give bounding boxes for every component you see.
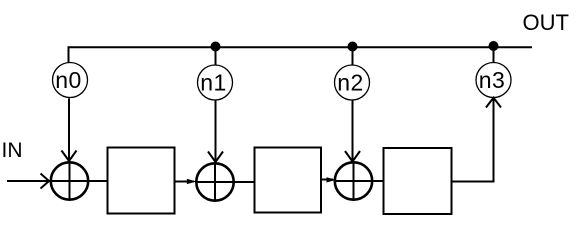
svg-text:OUT: OUT	[523, 10, 569, 35]
wire J2 to n2 top	[352, 47, 354, 66]
node n1	[198, 65, 233, 100]
arrowhead IN into X1 left	[41, 174, 50, 189]
delay box B1	[108, 148, 175, 214]
wire n0 to adder X1	[68, 98, 70, 160]
arrowhead into X1 top	[62, 151, 77, 162]
wire X2 to delay B2	[235, 181, 255, 183]
node n3	[476, 63, 511, 98]
wire J3 to n3 top	[493, 46, 495, 63]
wire X1 to delay B1	[90, 180, 108, 182]
svg-text:n0: n0	[55, 67, 82, 93]
IN label	[2, 139, 23, 162]
arrowhead into X3 top	[345, 151, 360, 162]
node n2	[335, 65, 370, 100]
net OUT label	[523, 10, 569, 35]
svg-text:n1: n1	[200, 70, 227, 96]
wire top rail	[69, 46, 533, 48]
junction dot J2 on rail at n2	[348, 42, 358, 52]
wire n2 to adder X3	[352, 100, 354, 160]
xor adder X2	[196, 163, 233, 200]
svg-text:n3: n3	[479, 67, 506, 93]
wire B1 to X2	[175, 181, 195, 183]
wire J1 to n1 top	[215, 47, 217, 66]
svg-text:n2: n2	[337, 70, 364, 96]
xor adder X1	[51, 162, 88, 199]
wire X3 to delay B3	[374, 180, 384, 182]
node n0	[53, 63, 88, 98]
wire B3 feedback to n3	[452, 99, 494, 182]
delay box B3	[384, 148, 452, 214]
xor adder X3	[335, 162, 372, 199]
delay box B2	[255, 148, 322, 213]
wire B2 to X3	[321, 179, 333, 181]
junction dot J3 on rail at n3	[489, 41, 499, 51]
junction dot J1 on rail at n1	[211, 42, 221, 52]
arrowhead into X2 left	[187, 179, 195, 183]
arrowhead up into n3 bottom	[486, 98, 501, 108]
svg-text:IN: IN	[2, 139, 23, 162]
arrowhead into X3 left	[327, 178, 335, 182]
arrowhead into X2 top	[208, 152, 223, 163]
wire n1 to adder X2	[215, 100, 217, 161]
wire rail corner drop to n0	[68, 46, 70, 63]
wire IN input	[7, 180, 49, 182]
